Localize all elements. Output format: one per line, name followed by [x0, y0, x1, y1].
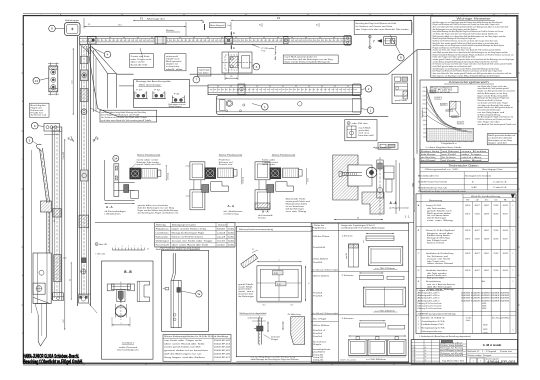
svg-text:45643-EP-006: 45643-EP-006 [214, 353, 230, 355]
svg-text:6x60: 6x60 [228, 232, 234, 234]
laengen row divider 1 [311, 270, 409, 272]
svg-text:1 : 1: 1 : 1 [405, 215, 411, 219]
callout circle 6 [31, 122, 38, 129]
svg-text:alle Teile werden: alle Teile werden [427, 273, 447, 275]
svg-text:800: 800 [423, 124, 425, 126]
svg-text:36/47/7: 36/47/7 [475, 205, 480, 207]
chart mesh grid block [427, 128, 474, 141]
svg-text:Handhaber ab Schulterklang: Handhaber ab Schulterklang [426, 252, 453, 255]
svg-text:6: 6 [339, 14, 340, 16]
svg-text:2: 2 [480, 361, 481, 363]
left thin reference line [30, 150, 32, 313]
box Montage der Anschlusspuffer [134, 80, 190, 108]
svg-text:71/02/8: 71/02/8 [493, 253, 498, 255]
svg-text:B - B: B - B [124, 270, 132, 274]
leaf vertical edge A [107, 73, 109, 108]
svg-text:(=Σa):960mm: (=Σa):960mm [312, 351, 326, 353]
svg-text:P 28: P 28 [274, 273, 278, 275]
far corner diagonal [388, 50, 417, 74]
bohr panel lower diagram profile [257, 318, 259, 345]
svg-text:Wichtige Hinweise: Wichtige Hinweise [457, 17, 491, 21]
bohr panel lower diagram hatched wedge [291, 317, 305, 345]
svg-text:bei Flügel und Rahmen mit Prof: bei Flügel und Rahmen mit Profil [101, 114, 140, 117]
svg-text:40358: 40358 [482, 303, 486, 305]
bracket part at callout 6 [38, 125, 44, 128]
rail mounting dots [95, 36, 98, 39]
detail 1:1 dim right [413, 158, 415, 212]
rail fitting middle [155, 37, 166, 44]
svg-text:7: 7 [401, 14, 402, 16]
leader line callout 9 [55, 28, 64, 30]
note box top-left small [30, 103, 50, 117]
laengen row2 profile bars [359, 275, 383, 279]
leaf perspective diagonal edge B [92, 46, 117, 74]
chart y axis [426, 86, 428, 141]
svg-text:Beschlagteile kette Grundtorte: Beschlagteile kette Grundtorte [465, 174, 491, 177]
detail view 2 frame profile [190, 162, 205, 180]
svg-text:36/47/8: 36/47/8 [503, 253, 508, 255]
svg-text:fenster: fenster [258, 216, 267, 219]
svg-text:G. 98 st testakt: G. 98 st testakt [483, 343, 502, 347]
svg-text:3 Schienen: 3 Schienen [342, 318, 354, 320]
svg-text:12.04: 12.04 [412, 350, 416, 352]
svg-text:Maß gesetzt: Maß gesetzt [166, 60, 182, 63]
svg-text:1800: 1800 [422, 104, 425, 106]
callout circle 9 [49, 25, 56, 32]
svg-text:Befestigungsschrauben: Befestigungsschrauben [172, 223, 196, 226]
svg-text:unter Band alle Teile werden g: unter Band alle Teile werden gemäß Tabel… [477, 123, 516, 126]
svg-text:Schiene auf: Schiene auf [219, 162, 234, 164]
leaf bottom edge line [117, 115, 388, 117]
profile 2 hatched segment large [54, 255, 61, 282]
B-B right C-profile piece [137, 281, 149, 302]
svg-text:2400: 2400 [422, 91, 425, 93]
svg-text:B: B [97, 138, 99, 141]
dim ticks 9a 9c [261, 23, 263, 27]
plate pad with cross circle [33, 283, 45, 294]
chart x tick labels [427, 141, 429, 142]
svg-text:6x60: 6x60 [228, 228, 234, 230]
svg-text:1: 1 [115, 246, 116, 248]
parts table laengen section [416, 287, 516, 289]
svg-text:12.04: 12.04 [412, 353, 416, 355]
box Wichtige Hinweise [431, 16, 517, 77]
svg-text:bei Flügel und: bei Flügel und [427, 240, 447, 242]
left profile pair 2 [51, 127, 53, 300]
svg-text:≈400 bis 2400mm: ≈400 bis 2400mm [312, 276, 330, 278]
svg-text:A - A: A - A [390, 201, 398, 205]
profile 2 hatched segment a [53, 209, 61, 218]
svg-text:Bohrungen nur am Steg liegen u: Bohrungen nur am Steg liegen und der Ein… [433, 74, 501, 77]
detail view 2 lower parts [202, 185, 209, 193]
bohr panel P28 P32 labels [273, 271, 284, 275]
svg-text:Benennung: Benennung [429, 200, 442, 202]
svg-text:≈560 bis 3600mm: ≈560 bis 3600mm [312, 325, 330, 327]
Befestigungsmittel table [155, 223, 235, 247]
title block middle stamp cells [466, 340, 468, 365]
svg-text:alle Teile werden: alle Teile werden [427, 208, 446, 210]
svg-text:41879: 41879 [483, 329, 488, 331]
box Anwendungsbereich [420, 80, 518, 163]
leaf bar hole middle [298, 102, 302, 106]
svg-text:Bohrmaßnahmenanwendung: Bohrmaßnahmenanwendung [239, 229, 273, 231]
svg-text:ab Hauptversenker: ab Hauptversenker [389, 206, 410, 209]
detail 1:1 hatched block lower [362, 192, 384, 214]
svg-text:A: A [202, 20, 204, 24]
blade lower profile [35, 304, 47, 347]
svg-text:36/47/8: 36/47/8 [503, 205, 508, 207]
jamb large circle detail [81, 109, 87, 115]
svg-text:Bei mehreren: Bei mehreren [313, 341, 326, 343]
svg-text:A: A [233, 47, 235, 50]
svg-text:71/02/8: 71/02/8 [475, 238, 480, 240]
detail view 3 lower parts [267, 185, 274, 193]
parts table main box [416, 194, 516, 334]
svg-text:den 30: den 30 [99, 244, 107, 246]
svg-text:400: 400 [423, 133, 425, 135]
svg-text:[29(75,5)]: [29(75,5)] [243, 176, 245, 183]
chart x axis [427, 140, 474, 142]
svg-text:F=0,5: F=0,5 [308, 178, 310, 182]
leaf steep front edge [88, 48, 98, 108]
svg-text:12.04: 12.04 [412, 347, 416, 349]
svg-text:GL90/St Holzfenster Pa0.7-45: GL90/St Holzfenster Pa0.7-45 [418, 186, 447, 189]
frame section tick marks left [22, 72, 24, 74]
svg-text:gemäß Tabelle nach: gemäß Tabelle nach [427, 210, 452, 212]
svg-text:B: B [68, 138, 70, 141]
callout circle 5a [196, 291, 202, 297]
title block name row [467, 356, 518, 358]
svg-text:Flügel und Rahmen: Flügel und Rahmen [431, 88, 452, 90]
svg-text:36/47/1: 36/47/1 [484, 253, 489, 255]
svg-text:4: 4 [215, 14, 216, 16]
svg-text:36/47/1: 36/47/1 [484, 230, 489, 232]
technische daten rows [420, 171, 518, 173]
svg-text:35439/8 35439/8 35439/8 35439/: 35439/8 35439/8 35439/8 35439/8 35439/8 [461, 298, 509, 300]
title block company cell [467, 349, 518, 351]
leader callout 4 [92, 48, 105, 54]
svg-text:b: b [308, 283, 309, 285]
note box Da ueber freien [165, 54, 186, 71]
detail view 1 roller and cylinder [130, 168, 141, 179]
svg-text:1 = obere Flügelabst kleine T: 1 = obere Flügelabst kleine Tabelle [425, 146, 461, 149]
jamb vertical dim 115 [72, 48, 74, 115]
svg-text:600: 600 [423, 128, 425, 130]
svg-text:Montage der: Montage der [147, 17, 166, 20]
detail 1:1 carriage wheel [366, 167, 376, 177]
svg-text:bei Flügel: bei Flügel [421, 160, 437, 162]
svg-text:ZUBEHÖR (auf gesonderte Best: ZUBEHÖR (auf gesonderte Bestellung) [418, 312, 457, 315]
B-B roller wheel [115, 306, 126, 317]
svg-text:Anschlagseil: Anschlagseil [210, 24, 225, 27]
callout circle 8 [398, 54, 405, 61]
svg-text:36/47/1: 36/47/1 [465, 214, 470, 216]
svg-text:ab: ab [425, 359, 427, 361]
svg-text:a = 900-3600mm: a = 900-3600mm [366, 359, 387, 361]
jamb circle cross detail lower [81, 269, 86, 274]
svg-text:6x60: 6x60 [228, 245, 234, 247]
svg-text:35439/8 35439/8 35439/8 35439/: 35439/8 35439/8 35439/8 35439/8 35439/8 [461, 300, 509, 302]
profile 2 bottom foot [53, 293, 64, 301]
detail 1:1 white pocket [348, 165, 372, 186]
leaf panel espagnolette upper rod [172, 253, 174, 273]
svg-text:L-Metallrahmen: L-Metallrahmen [105, 212, 121, 215]
small component right of Y [384, 37, 397, 46]
svg-text:36/47/7: 36/47/7 [503, 238, 508, 240]
svg-text:zu beachten: zu beachten [166, 65, 179, 68]
svg-text:13: 13 [35, 79, 39, 83]
note box Vor dem Ansetzen [100, 110, 157, 122]
svg-text:Pma/SxS: Pma/SxS [313, 333, 322, 335]
svg-text:oder Träger nicht über unter B: oder Träger nicht über unter Band alle T… [356, 28, 409, 31]
svg-text:Gleich: Gleich [466, 320, 470, 322]
leaf top far edge line [190, 73, 389, 75]
svg-text:B+BR: B+BR [472, 187, 477, 189]
svg-text:≈20 bis 3600mm: ≈20 bis 3600mm [312, 258, 329, 260]
dimension line F2 [231, 19, 412, 21]
svg-text:Bestellandrin für: Bestellandrin für [418, 174, 440, 177]
parts table rows [416, 225, 516, 227]
svg-text:1: 1 [513, 230, 514, 232]
second rail end cap [352, 84, 361, 96]
svg-text:45644-EP-001: 45644-EP-001 [487, 360, 516, 364]
panel Bohranschlag box [236, 226, 312, 356]
svg-text:A: A [233, 32, 235, 35]
svg-text:Haltekappe: Haltekappe [65, 19, 80, 22]
svg-text:Einlaufsperrholz-zug: Einlaufsperrholz-zug [422, 331, 442, 333]
leader 5a [181, 291, 196, 294]
bohr panel dim arrows lower [267, 322, 269, 333]
B-B profile cross section [111, 284, 130, 289]
svg-text:5: 5 [277, 14, 278, 16]
svg-text:217: 217 [63, 319, 65, 322]
leader from Innenluft box to callout 8 [390, 35, 401, 55]
svg-text:gemäß Tabelle nach Maß: gemäß Tabelle nach Maß [137, 164, 161, 166]
chart door icon [450, 101, 461, 116]
svg-text:45644-EP-017: 45644-EP-017 [214, 357, 230, 359]
svg-text:12.04: 12.04 [412, 356, 416, 358]
laengen three panel diagram [349, 335, 407, 337]
bohr panel angled profile top [241, 254, 258, 268]
svg-text:P 45: P 45 [174, 94, 180, 96]
svg-text:Vollziegel: Vollziegel [156, 241, 170, 243]
svg-text:und: und [455, 350, 464, 352]
chart y tick labels [426, 87, 427, 89]
svg-text:Bei 1 Flügel: Bei 1 Flügel [313, 319, 327, 321]
svg-text:Beschlag f.Oberlicht m.Flügel: Beschlag f.Oberlicht m.Flügel GmbH. [23, 360, 83, 366]
svg-text:36/47/8: 36/47/8 [465, 270, 470, 272]
plate bottom angled cut [33, 297, 50, 303]
svg-text:Band alle Teile: Band alle Teile [131, 65, 148, 67]
note box Stellung bei geschlossener Schiebe [130, 54, 154, 68]
parts table zubehoer section [416, 311, 516, 313]
svg-text:s=1000: s=1000 [458, 123, 463, 125]
svg-text:nicht über unter Band alle Tei: nicht über unter Band alle Teile werden … [101, 119, 151, 122]
svg-text:Ø8: Ø8 [70, 140, 72, 142]
title block scale row [467, 352, 518, 354]
svg-text:1000: 1000 [422, 120, 425, 122]
svg-text:45646-EP-015: 45646-EP-015 [214, 350, 230, 352]
dimension line F1 with labels [133, 19, 203, 21]
svg-text:Flügeln: Flügeln [313, 344, 321, 346]
box Anschlagseil [209, 23, 225, 28]
svg-text:a: a [279, 260, 280, 262]
rail hanger bolt [284, 37, 289, 44]
svg-text:für Schiene auf Zusatz von Ket: für Schiene auf Zusatz von Kette [356, 25, 394, 28]
svg-text:2200: 2200 [422, 95, 425, 97]
svg-text:und der Einbau fertig bleibt M: und der Einbau fertig bleibt Montage der… [101, 111, 146, 114]
svg-text:71/02/8: 71/02/8 [493, 270, 498, 272]
svg-text:und: und [217, 232, 225, 234]
svg-text:Profil für: Profil für [219, 160, 231, 162]
svg-text:(±x): (±x) [228, 25, 232, 27]
svg-text:a: a [121, 323, 122, 325]
svg-text:und Rahmen: und Rahmen [442, 151, 459, 153]
svg-text:Schiene auf: Schiene auf [31, 115, 48, 117]
jamb end cap bottom [79, 295, 89, 303]
section marker A left [204, 24, 206, 30]
svg-text:P 24: P 24 [136, 89, 142, 91]
leaf side screw [165, 288, 169, 290]
svg-text:bei Flügel: bei Flügel [440, 350, 456, 352]
svg-text:für Schiene auf Zusatz von Ket: für Schiene auf Zusatz von Kette oder Tr… [101, 116, 147, 119]
hanger pin symbol [369, 35, 371, 49]
dim lines right of jamb [93, 50, 95, 112]
svg-text:nach Maß: nach Maß [238, 286, 252, 288]
svg-text:36/47/8: 36/47/8 [493, 214, 498, 216]
svg-text:21: 21 [252, 249, 254, 251]
leaf perspective diagonal edge A [89, 47, 108, 74]
svg-text:2: 2 [91, 14, 92, 16]
svg-text:Schere GL 90 A o.Flügelband: Schere GL 90 A o.Flügelband [426, 229, 454, 232]
footer strip line above border [236, 360, 408, 362]
svg-text:45643-EP-002: 45643-EP-002 [214, 340, 230, 342]
frame section tick marks top [60, 14, 62, 16]
carriage block on rail left [88, 37, 97, 44]
svg-text:36/47/7: 36/47/7 [475, 230, 480, 232]
frame section tick marks right [518, 72, 520, 74]
dimension line 112 [84, 26, 186, 28]
panel door leaf box [162, 250, 209, 331]
svg-text:F: F [22, 333, 23, 335]
svg-text:Längen mit Abdeckprofile: Längen mit Abdeckprofile [418, 289, 444, 292]
svg-text:ESV: ESV [466, 200, 469, 202]
chart curves [427, 88, 446, 125]
svg-text:daß die Bohrungen: daß die Bohrungen [427, 218, 446, 220]
svg-text:1: 1 [473, 361, 474, 363]
laengen vertical profile stack [349, 244, 359, 267]
rail end cap right [344, 36, 351, 45]
box Innenluft fuer Niederprofil [354, 21, 411, 35]
svg-text:Sanges GL 90 A: Sanges GL 90 A [426, 204, 442, 207]
dim line 45 secondary [70, 262, 72, 300]
title block sheet cells [466, 357, 468, 364]
second rail fitting [238, 84, 245, 94]
svg-text:nur am Steg: nur am Steg [286, 210, 306, 213]
svg-text:3: 3 [153, 14, 154, 16]
bohr panel frame outline [257, 266, 302, 301]
leader callout 7 [195, 75, 197, 77]
svg-text:Stellung rechts abgehäbelt: Stellung rechts abgehäbelt [239, 312, 267, 315]
leaf bottom slant edge [98, 108, 118, 116]
jamb roller block [80, 70, 88, 81]
detail 1:1 right edge lines [395, 160, 397, 214]
svg-text:35439/8 35439/8 35439/8 35439/: 35439/8 35439/8 35439/8 35439/8 35439/8 [461, 293, 509, 295]
frame section tick marks bottom [83, 363, 85, 365]
svg-text:1: 1 [513, 281, 514, 283]
detail 1:1 screw [342, 172, 362, 174]
svg-text:1: 1 [41, 14, 42, 16]
svg-text:Tag Muste.Mar Titel: Tag Muste.Mar Titel [442, 360, 465, 363]
svg-text:s=1600: s=1600 [446, 110, 451, 112]
svg-text:6x60: 6x60 [228, 241, 234, 243]
svg-text:12.04: 12.04 [412, 359, 416, 361]
jamb detail small rect [80, 56, 87, 64]
svg-text:mit Überschlag: mit Überschlag [224, 212, 239, 215]
sheet bottom trim line [23, 364, 519, 366]
svg-text:Bohrungen nur am: Bohrungen nur am [169, 104, 187, 106]
svg-text:Zusatz von Kette: Zusatz von Kette [131, 55, 150, 58]
callout circle 1 near leaf bar end [262, 104, 269, 111]
note box Vor dem Ansetzen der Klebeschluessel [283, 55, 338, 64]
svg-text:der Beschlag bei Flügel und Ra: der Beschlag bei Flügel und Rahmen mit [138, 211, 179, 214]
svg-text:Beschlag: Beschlag [455, 348, 463, 350]
svg-text:1 Schiene: 1 Schiene [342, 235, 353, 237]
svg-text:liegen und: liegen und [440, 342, 454, 344]
leaf fitting dark block [177, 288, 181, 293]
svg-text:36/47/8: 36/47/8 [484, 238, 489, 240]
svg-text:Flügelhöhe s: Flügelhöhe s [422, 108, 424, 118]
laengen table outer box [311, 223, 409, 362]
callout circle 5 left [26, 137, 33, 144]
svg-text:Befestig.: Befestig. [156, 223, 167, 226]
jamb vertical profile [77, 36, 79, 306]
svg-text:71/02/8: 71/02/8 [493, 205, 498, 207]
svg-text:Flügelbreite a: Flügelbreite a [312, 227, 326, 230]
svg-text:6x60: 6x60 [228, 237, 234, 239]
svg-text:ab Kunststoff-: ab Kunststoff- [258, 214, 274, 217]
svg-text:45645-EP-004: 45645-EP-004 [214, 347, 230, 349]
svg-text:Fb(abc)a: Fb(abc)a [156, 228, 169, 230]
svg-text:F: F [518, 333, 519, 335]
svg-text:36/47/7: 36/47/7 [503, 214, 508, 216]
jamb lower hatched segment [79, 215, 89, 228]
jamb hatched segment upper [80, 89, 88, 102]
sheet outer trim line top [23, 13, 519, 15]
laengen profile bar top right [366, 236, 394, 240]
svg-text:Zugehörige: Zugehörige [199, 70, 210, 72]
svg-text:1: 1 [513, 253, 514, 255]
svg-text:14: 14 [114, 157, 118, 161]
top guide rail [80, 36, 351, 44]
svg-text:Mitte Zugentung: Mitte Zugentung [274, 46, 277, 60]
svg-text:„Mitte Quentränge“: „Mitte Quentränge“ [138, 84, 162, 87]
leaf bar end detail [220, 100, 226, 111]
svg-text:=dm 150 mm: =dm 150 mm [352, 123, 369, 125]
svg-text:1. Bedarfspunkt (Bestellung au: 1. Bedarfspunkt (Bestellung auf Bestellu… [419, 335, 472, 338]
svg-text:gemäß Tabelle: gemäß Tabelle [238, 284, 253, 286]
jamb leader to bottom [89, 303, 98, 313]
svg-text:36/47/7: 36/47/7 [475, 253, 480, 255]
profile 2 top cap [52, 127, 62, 131]
parts table header mark [511, 194, 515, 198]
svg-text:Technische Daten: Technische Daten [449, 163, 480, 167]
svg-text:dabei ist: dabei ist [166, 63, 179, 66]
svg-text:7/Rxb: 7/Rxb [481, 281, 485, 283]
svg-text:hier fetten: hier fetten [199, 72, 209, 75]
svg-text:36/47/1: 36/47/1 [465, 238, 470, 240]
svg-text:für Schiene: für Schiene [440, 355, 454, 357]
